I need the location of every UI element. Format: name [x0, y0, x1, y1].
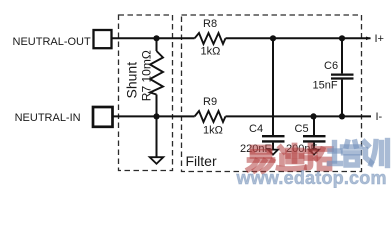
svg-text:C4: C4: [249, 123, 263, 135]
svg-text:15nF: 15nF: [313, 80, 338, 92]
svg-text:C6: C6: [324, 60, 338, 72]
svg-text:I-: I-: [376, 111, 383, 123]
svg-text:1kΩ: 1kΩ: [201, 46, 221, 58]
svg-text:Filter: Filter: [186, 153, 217, 169]
svg-text:R8: R8: [203, 18, 217, 30]
svg-text:R7 10mΩ: R7 10mΩ: [140, 50, 154, 101]
svg-text:NEUTRAL-OUT: NEUTRAL-OUT: [13, 36, 92, 48]
svg-text:R9: R9: [203, 96, 217, 108]
svg-text:1kΩ: 1kΩ: [203, 125, 223, 137]
svg-text:NEUTRAL-IN: NEUTRAL-IN: [15, 112, 81, 124]
svg-text:I+: I+: [375, 33, 384, 45]
svg-text:C5: C5: [295, 123, 309, 135]
svg-text:www.edatop.com: www.edatop.com: [236, 168, 387, 188]
svg-text:Shunt: Shunt: [123, 62, 139, 99]
